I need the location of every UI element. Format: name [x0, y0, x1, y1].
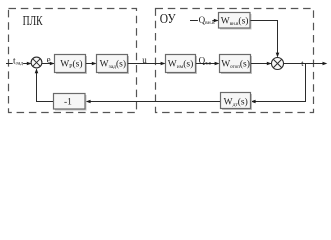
- node label t_зад: [13, 59, 23, 65]
- wire output branch down at node t: [251, 64, 305, 102]
- wire S2 to output, node t: [284, 63, 323, 65]
- svg-text:ПЛК: ПЛК: [23, 14, 43, 29]
- block -1 inverter: [55, 95, 87, 111]
- wire W_P to W_zad: [86, 63, 96, 65]
- block W_zad(s): [98, 56, 129, 74]
- dashed enclosure OU (ОУ): [156, 9, 314, 113]
- disturbance input wire Q_вн.в: [190, 20, 218, 22]
- summing junction S1: [31, 57, 42, 68]
- svg-text:-1: -1: [64, 98, 72, 108]
- wire S1 to W_P, node e: [42, 63, 54, 65]
- block W_otop(s) object: [221, 56, 252, 74]
- wire W_im to W_otop, node Q_т.в: [196, 63, 219, 65]
- svg-text:ОУ: ОУ: [160, 12, 176, 27]
- feedback wire -1 to S1 bottom: [37, 69, 54, 101]
- svg-text:u: u: [142, 55, 147, 65]
- wire W_vn.v to S2 top: [251, 21, 278, 57]
- dashed enclosure PLC (ПЛК): [9, 9, 137, 113]
- wire input t_zad to summer S1: [6, 63, 31, 65]
- feedback wire W_dt to block -1: [86, 101, 220, 103]
- node label Q_вн.в: [198, 17, 212, 25]
- block W_dt(s) temperature sensor: [222, 94, 252, 110]
- block W_P(s) regulator: [56, 56, 87, 74]
- wire u from W_zad to W_im: [128, 63, 165, 65]
- summing junction S2: [272, 58, 284, 70]
- block W_vn.v(s) disturbance channel: [220, 14, 252, 30]
- wire W_otop to summer S2: [251, 63, 271, 65]
- block W_im(s) actuator: [167, 56, 197, 74]
